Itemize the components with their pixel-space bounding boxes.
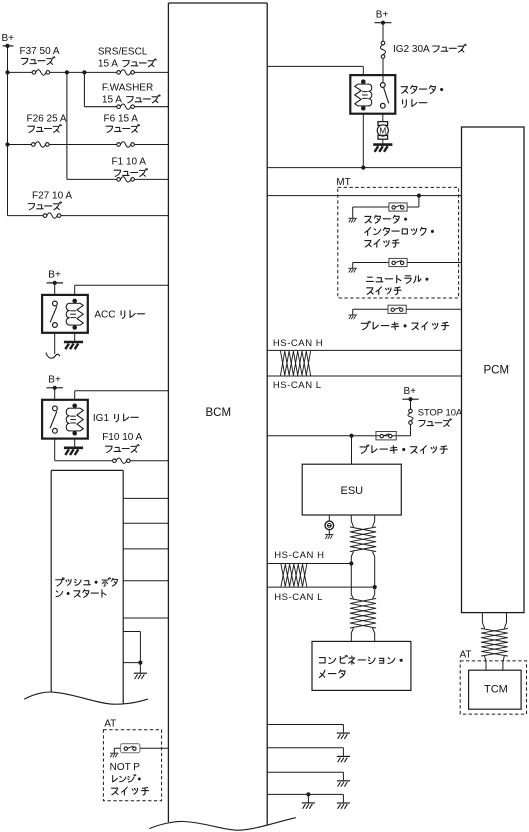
svg-text:HS-CAN H: HS-CAN H	[273, 338, 323, 349]
svg-text:M: M	[379, 127, 386, 136]
svg-text:IG2 30A: IG2 30A	[393, 44, 430, 55]
svg-text:TCM: TCM	[484, 684, 508, 696]
svg-text:ACC: ACC	[94, 310, 115, 321]
svg-text:F10 10 A: F10 10 A	[102, 432, 142, 443]
svg-text:HS-CAN L: HS-CAN L	[273, 380, 322, 391]
svg-text:B+: B+	[48, 375, 61, 386]
svg-text:F1 10 A: F1 10 A	[112, 157, 147, 168]
svg-text:F37 50 A: F37 50 A	[20, 46, 60, 57]
svg-text:B+: B+	[376, 10, 389, 21]
svg-text:F27 10 A: F27 10 A	[32, 191, 72, 202]
svg-text:STOP 10A: STOP 10A	[418, 406, 463, 417]
svg-text:HS-CAN L: HS-CAN L	[274, 592, 323, 603]
svg-text:F26 25 A: F26 25 A	[27, 114, 67, 125]
svg-text:B+: B+	[404, 386, 417, 397]
svg-text:MT: MT	[336, 177, 350, 188]
svg-text:SRS/ESCL: SRS/ESCL	[98, 47, 148, 58]
svg-text:ESU: ESU	[341, 485, 364, 497]
svg-text:15 A: 15 A	[102, 95, 122, 106]
svg-text:AT: AT	[104, 719, 116, 730]
svg-text:AT: AT	[460, 650, 472, 661]
svg-text:PCM: PCM	[484, 365, 510, 377]
svg-text:B+: B+	[2, 33, 15, 44]
svg-text:BCM: BCM	[206, 407, 232, 419]
svg-text:HS-CAN H: HS-CAN H	[274, 550, 324, 561]
svg-text:15 A: 15 A	[98, 59, 118, 70]
svg-text:B+: B+	[48, 270, 61, 281]
svg-text:F6 15 A: F6 15 A	[104, 114, 139, 125]
svg-text:IG1: IG1	[93, 413, 110, 424]
svg-text:F.WASHER: F.WASHER	[102, 83, 153, 94]
svg-text:NOT P: NOT P	[110, 762, 141, 773]
